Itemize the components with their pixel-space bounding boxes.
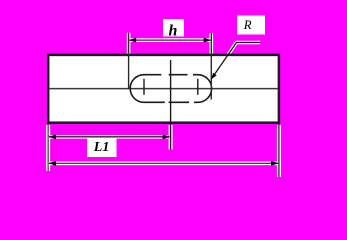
vertical centerline: [170, 60, 172, 150]
arrowhead h right: [204, 38, 211, 43]
label box h: [163, 19, 184, 37]
extension line casing (bottom left): [46, 125, 50, 171]
horizontal centerline through part: [49, 88, 278, 90]
arrowhead h left: [129, 38, 136, 43]
label box R: [237, 16, 265, 35]
dimension line L1: [49, 136, 170, 138]
extension line casing (bottom right): [277, 125, 281, 177]
leader line R: [213, 43, 261, 78]
dimension line casing (bottom): [50, 162, 277, 166]
extension line (h left): [128, 33, 130, 89]
arrowhead R leader: [211, 73, 217, 80]
dimension line casing (L1): [50, 135, 168, 139]
svg-text:L1: L1: [93, 140, 110, 155]
extension line (bottom left): [47, 124, 49, 171]
slot bottom dash: [169, 101, 189, 103]
leader casing (R): [211, 43, 260, 80]
svg-text:R: R: [243, 18, 252, 32]
extension line casing (h left): [127, 33, 131, 54]
dimension line casing (h): [127, 38, 213, 42]
svg-text:h: h: [169, 22, 178, 39]
part outline rectangle: [48, 55, 279, 123]
vertical centerline casing (below part): [169, 125, 173, 150]
extension line (h right): [210, 33, 212, 100]
dimension line bottom: [49, 162, 278, 164]
dimension line h: [130, 39, 211, 41]
arrowhead L1 right: [163, 134, 170, 139]
arrowhead bottom left: [49, 161, 56, 166]
slot right arc (hidden outline): [193, 75, 212, 103]
slot top dash: [169, 74, 188, 76]
slot left arc (hidden outline): [130, 75, 165, 103]
extension line (bottom right): [278, 124, 280, 177]
label box L1: [87, 138, 117, 157]
extension line casing (h right): [210, 33, 214, 54]
slot left arc center mark: [143, 79, 145, 95]
arrowhead L1 left: [49, 134, 56, 139]
slot right arc center mark: [197, 79, 199, 95]
arrowhead bottom right: [271, 161, 278, 166]
